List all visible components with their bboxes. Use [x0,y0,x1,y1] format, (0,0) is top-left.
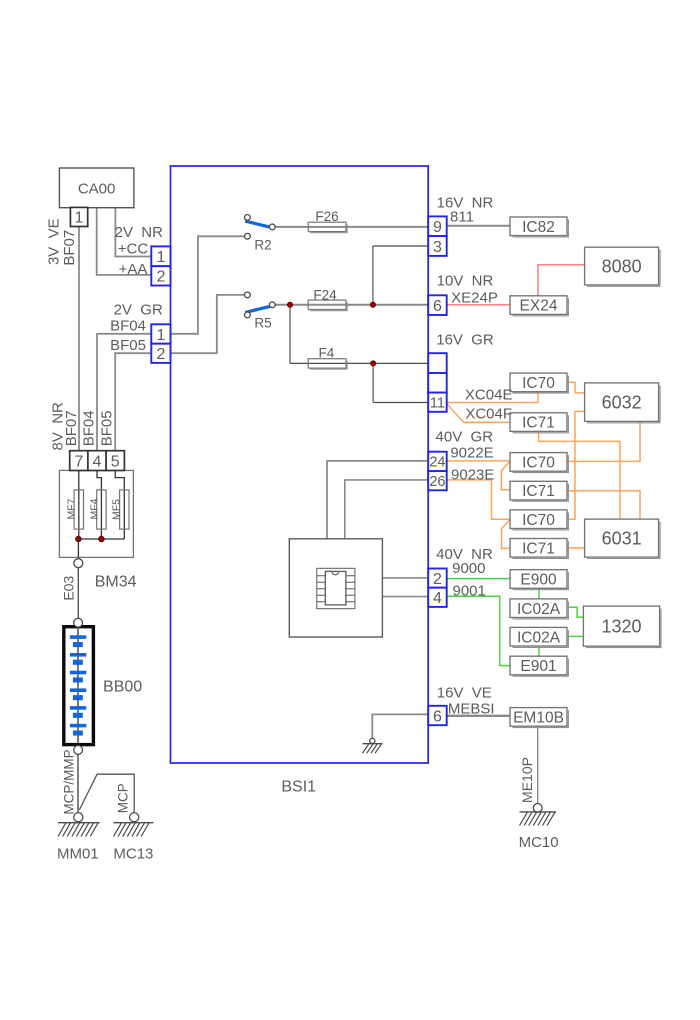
svg-text:XC04F: XC04F [465,406,512,423]
svg-text:2V GR: 2V GR [114,302,163,319]
svg-text:BF07: BF07 [63,410,80,446]
svg-text:3: 3 [433,239,442,256]
svg-text:R2: R2 [254,238,271,253]
svg-text:MF5: MF5 [110,499,122,520]
svg-text:IC71: IC71 [522,415,555,432]
svg-text:6032: 6032 [602,393,642,413]
svg-text:9000: 9000 [452,560,485,577]
svg-text:2V NR: 2V NR [115,224,164,241]
svg-text:IC71: IC71 [522,540,555,557]
svg-text:BSI1: BSI1 [281,779,316,796]
svg-text:9023E: 9023E [451,467,494,484]
svg-text:1: 1 [156,249,165,266]
svg-text:1: 1 [156,327,165,344]
svg-text:40V GR: 40V GR [436,429,494,446]
svg-text:16V GR: 16V GR [436,332,494,349]
svg-text:MM01: MM01 [57,846,99,863]
svg-text:811: 811 [450,209,474,226]
svg-text:5: 5 [111,454,120,471]
svg-text:IC70: IC70 [522,512,555,529]
svg-text:1320: 1320 [601,617,641,637]
svg-text:R5: R5 [254,316,271,331]
svg-text:IC70: IC70 [522,454,555,471]
svg-text:+AA: +AA [119,261,148,278]
svg-text:4: 4 [93,454,102,471]
svg-text:6: 6 [433,298,442,315]
svg-text:BF04: BF04 [81,410,98,446]
svg-text:MEBSI: MEBSI [448,701,495,718]
svg-text:MC13: MC13 [113,846,153,863]
svg-text:9022E: 9022E [450,445,493,462]
svg-text:MC10: MC10 [519,834,559,851]
svg-text:E900: E900 [520,572,557,589]
svg-text:IC82: IC82 [522,219,555,236]
svg-text:6031: 6031 [602,529,642,549]
svg-text:EM10B: EM10B [513,709,564,726]
svg-text:10V NR: 10V NR [437,273,494,290]
svg-text:F26: F26 [315,209,338,224]
svg-text:BF05: BF05 [99,410,116,446]
svg-text:IC02A: IC02A [517,629,561,646]
svg-text:XE24P: XE24P [451,290,498,307]
svg-text:11: 11 [430,395,445,411]
svg-text:EX24: EX24 [520,298,558,315]
svg-text:F4: F4 [319,346,335,361]
svg-text:+CC: +CC [118,241,149,258]
svg-text:CA00: CA00 [78,181,116,198]
svg-text:MF7: MF7 [65,498,77,519]
svg-text:16V VE: 16V VE [437,685,492,702]
svg-text:4: 4 [433,590,442,607]
svg-text:6: 6 [433,708,442,725]
svg-text:3V VE: 3V VE [46,218,63,265]
svg-text:1: 1 [75,210,84,227]
svg-text:E03: E03 [60,576,76,601]
svg-text:2: 2 [156,346,165,363]
svg-text:BF04: BF04 [110,318,146,335]
svg-text:26: 26 [429,474,445,490]
svg-text:BB00: BB00 [103,679,142,696]
svg-text:XC04E: XC04E [465,387,513,404]
svg-text:8080: 8080 [602,257,642,277]
svg-text:MF4: MF4 [88,498,100,519]
svg-text:BM34: BM34 [95,574,137,591]
svg-text:E901: E901 [520,658,556,675]
svg-text:2: 2 [156,269,165,286]
svg-text:BF05: BF05 [110,337,146,354]
svg-text:IC02A: IC02A [517,601,561,618]
svg-text:ME10P: ME10P [519,757,535,803]
svg-text:F24: F24 [313,288,337,303]
svg-text:24: 24 [429,455,445,471]
svg-text:IC70: IC70 [522,375,555,392]
svg-text:2: 2 [433,571,442,588]
svg-text:BF07: BF07 [61,230,78,266]
svg-text:9: 9 [433,219,442,236]
svg-text:MCP: MCP [115,783,130,813]
svg-text:7: 7 [74,454,83,471]
svg-text:IC71: IC71 [522,483,555,500]
svg-text:9001: 9001 [453,583,486,600]
svg-text:MCP/MMP: MCP/MMP [61,749,76,814]
